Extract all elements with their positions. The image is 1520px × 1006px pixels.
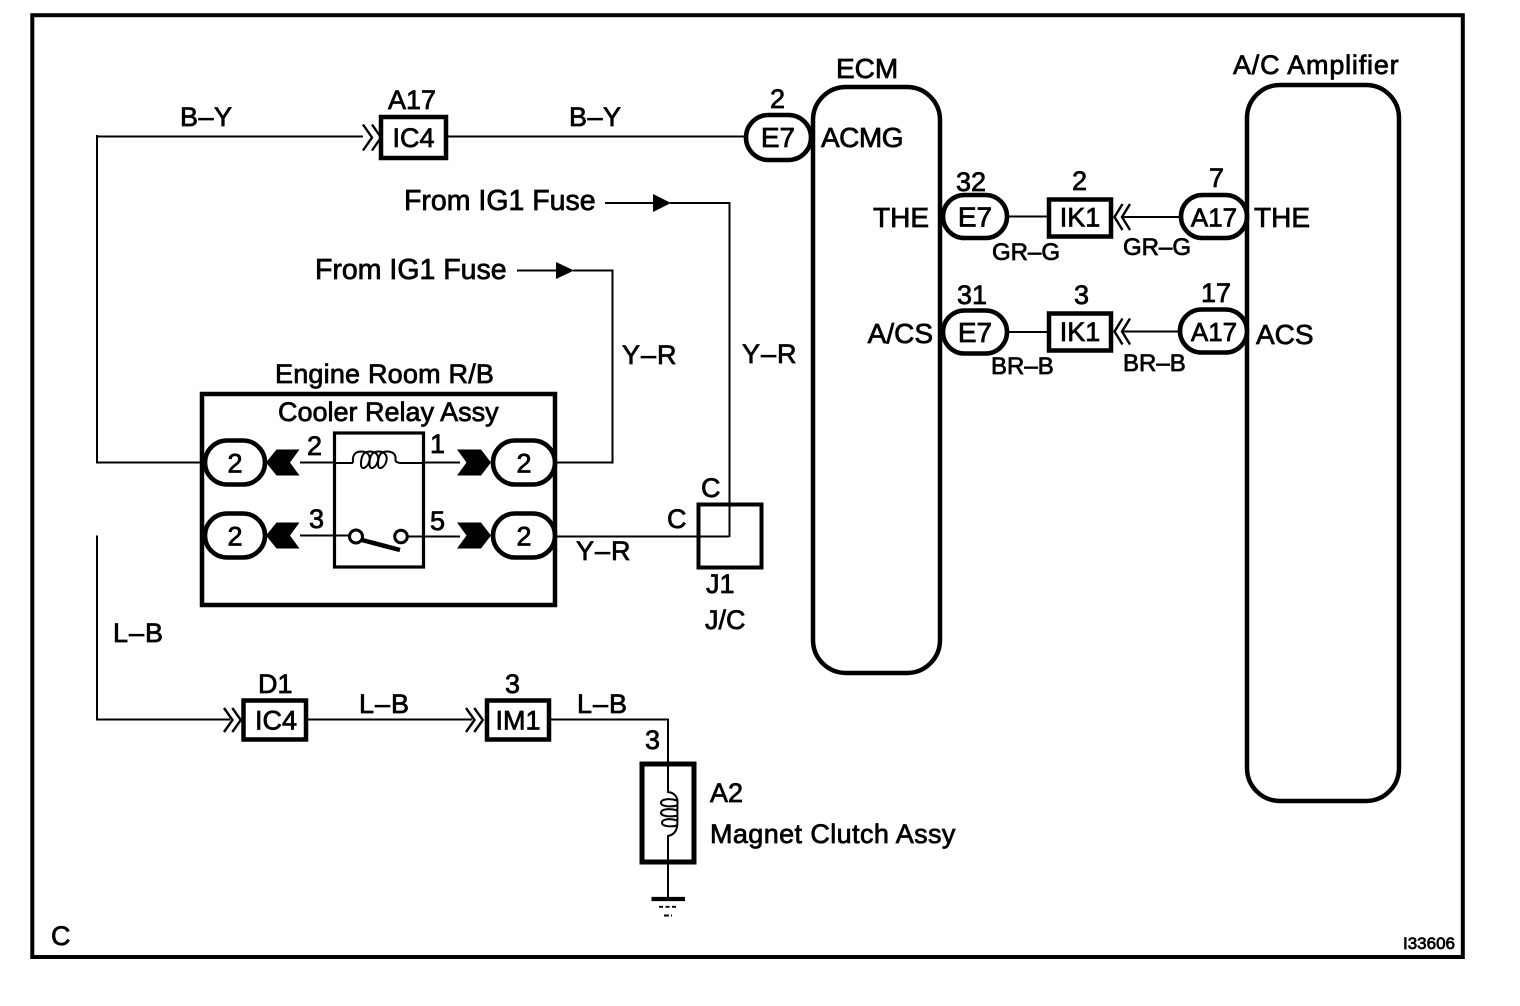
node E7 pin 2 (ACMG) [746, 84, 811, 160]
wire B-Y riser down the left into relay pin 2 [97, 135, 206, 463]
pin number 1 (relay coil) [430, 429, 445, 459]
A/C Amplifier box [1247, 85, 1399, 801]
svg-text:31: 31 [957, 280, 987, 310]
label I33606 (figure number) [1403, 934, 1455, 953]
wire L-B riser from relay pin 3 down to connector D1 [97, 536, 230, 720]
arrow into relay coil (left, row 1) [266, 450, 300, 476]
wire from IG1 fuse (upper) to arrow [605, 202, 653, 204]
svg-text:3: 3 [645, 725, 660, 755]
wire Y-R from IG1 (lower) down to relay pin 1 side [556, 271, 613, 463]
svg-text:3: 3 [309, 504, 324, 534]
pin number 5 (relay switch) [430, 506, 445, 536]
svg-text:BR–B: BR–B [1123, 350, 1186, 377]
svg-text:BR–B: BR–B [991, 353, 1054, 380]
svg-text:32: 32 [956, 167, 986, 197]
svg-text:B–Y: B–Y [569, 102, 622, 132]
svg-text:A17: A17 [388, 85, 436, 115]
label From IG1 Fuse (upper) [404, 185, 596, 217]
connector IK1 (pin 2) [1049, 166, 1111, 237]
svg-text:C: C [701, 473, 721, 503]
svg-text:A17: A17 [1191, 203, 1237, 233]
label C (page index, bottom left) [51, 921, 71, 951]
pin number 2 (relay coil) [307, 431, 322, 461]
svg-text:C: C [51, 921, 71, 951]
svg-text:IK1: IK1 [1060, 203, 1101, 233]
arrow IG1 feed (upper) [653, 194, 671, 212]
svg-text:Y–R: Y–R [622, 340, 678, 370]
label From IG1 Fuse (lower) [315, 254, 507, 286]
wire B-Y from left riser to connector IC4 [97, 136, 363, 138]
wire E7-32 to IK1 [1007, 216, 1049, 218]
svg-text:Engine Room R/B: Engine Room R/B [275, 359, 494, 389]
svg-text:2: 2 [516, 449, 531, 479]
svg-text:IC4: IC4 [255, 706, 297, 736]
arrow out of relay coil (right, row 1) [457, 450, 491, 476]
svg-text:2: 2 [1072, 166, 1087, 196]
wire arrow to switch box (row2 left) [300, 535, 349, 537]
label L-B (right) [577, 689, 628, 719]
svg-text:2: 2 [227, 522, 242, 552]
svg-text:3: 3 [1074, 280, 1089, 310]
label BR-B (right) [1123, 350, 1186, 377]
label ECM [836, 53, 898, 84]
pin name ACS (amplifier) [1256, 319, 1314, 350]
node E7 pin 32 (THE) [943, 167, 1007, 238]
label GR-G (left) [992, 239, 1060, 266]
connector IM1 (pin 3) [487, 669, 549, 740]
label A2 [710, 778, 743, 808]
ECM box [813, 87, 940, 673]
svg-text:THE: THE [1254, 202, 1310, 233]
node A17 pin 17 (ACS) [1180, 278, 1247, 353]
svg-text:17: 17 [1201, 278, 1231, 308]
svg-text:Y–R: Y–R [742, 339, 798, 369]
pin number 3 (relay switch) [309, 504, 324, 534]
connector arrows after IK1 (row 1) [1115, 204, 1131, 230]
svg-text:D1: D1 [258, 669, 293, 699]
label L-B (riser) [113, 618, 164, 648]
svg-text:Cooler Relay Assy: Cooler Relay Assy [278, 397, 499, 427]
node A17 pin 7 (THE) [1181, 163, 1247, 238]
relay terminal oval 2 (row 2 right) [493, 514, 555, 558]
svg-text:IM1: IM1 [495, 706, 540, 736]
wire Y-R relay pin 5 to junction J1 [555, 536, 729, 538]
wire Y-R from IG1 (upper) down to J/C [670, 203, 730, 537]
pin number 3 (magnet clutch) [645, 725, 660, 755]
svg-text:Y–R: Y–R [576, 536, 632, 566]
connector D1 / IC4 [244, 669, 307, 740]
label Engine Room R/B [275, 359, 494, 389]
label Y-R (left riser) [622, 340, 678, 370]
svg-text:ACS: ACS [1256, 319, 1314, 350]
node E7 pin 31 (A/CS) [943, 280, 1007, 354]
pin name THE (ECM) [873, 202, 929, 233]
svg-text:2: 2 [770, 84, 785, 114]
wire coil box to arrow (row1 right) [423, 462, 460, 464]
svg-text:J/C: J/C [705, 605, 746, 635]
magnet clutch A2 box [642, 764, 694, 862]
label Magnet Clutch Assy [710, 819, 956, 849]
pin name A/CS (ECM) [868, 318, 933, 349]
svg-text:GR–G: GR–G [992, 239, 1060, 266]
connector IK1 (pin 3) [1049, 280, 1111, 351]
wire IK1 to A17-17 (BR-B) [1122, 331, 1180, 333]
svg-text:2: 2 [227, 449, 242, 479]
wire arrow to coil box (row1 left) [300, 462, 335, 464]
svg-text:E7: E7 [958, 317, 992, 348]
svg-text:THE: THE [873, 202, 929, 233]
wire B-Y from IC4 to ECM pin E7-2 [446, 136, 747, 138]
relay block (Engine Room R/B) [202, 394, 555, 605]
svg-text:3: 3 [505, 669, 520, 699]
label C (junction pin, left) [667, 504, 687, 534]
svg-text:7: 7 [1209, 163, 1224, 193]
connector arrows into IC4 (A17) [363, 125, 381, 151]
magnet clutch coil [661, 764, 678, 862]
connector A17 / IC4 [381, 85, 446, 158]
relay terminal oval 2 (row 1 left) [205, 441, 265, 485]
wire L-B from IM1 to magnet clutch [548, 720, 668, 765]
svg-text:2: 2 [307, 431, 322, 461]
relay terminal oval 2 (row 2 left) [205, 514, 265, 558]
svg-text:2: 2 [516, 522, 531, 552]
label GR-G (right) [1123, 234, 1191, 261]
svg-text:ECM: ECM [836, 53, 898, 84]
svg-text:IC4: IC4 [392, 123, 434, 153]
junction block J1 J/C [699, 505, 762, 568]
wire switch to arrow (row2 right) [407, 536, 460, 538]
connector arrows after IK1 (row 2) [1115, 319, 1131, 345]
svg-text:C: C [667, 504, 687, 534]
label B-Y (left) [180, 102, 233, 132]
arrow IG1 feed (lower) [556, 262, 574, 279]
svg-text:GR–G: GR–G [1123, 234, 1191, 261]
svg-text:E7: E7 [958, 202, 992, 233]
svg-text:B–Y: B–Y [180, 102, 233, 132]
svg-text:From IG1 Fuse: From IG1 Fuse [404, 185, 596, 217]
ground [652, 899, 686, 916]
arrow out of relay switch (right, row 2) [457, 523, 491, 549]
svg-text:A2: A2 [710, 778, 743, 808]
svg-text:5: 5 [430, 506, 445, 536]
svg-text:L–B: L–B [359, 689, 410, 719]
wire from IG1 fuse (lower) to arrow [517, 270, 556, 272]
arrow into relay switch (left, row 2) [266, 523, 300, 549]
svg-text:ACMG: ACMG [821, 122, 903, 153]
pin name ACMG [821, 122, 903, 153]
label Cooler Relay Assy [278, 397, 499, 427]
svg-text:From IG1 Fuse: From IG1 Fuse [315, 254, 507, 286]
connector arrows into IC4 (D1) [224, 708, 241, 732]
relay inner box [335, 433, 424, 567]
svg-text:J1: J1 [706, 569, 735, 599]
label A/C Amplifier [1233, 50, 1399, 80]
label L-B (middle) [359, 689, 410, 719]
pin name THE (amplifier) [1254, 202, 1310, 233]
svg-text:A/CS: A/CS [868, 318, 933, 349]
wire E7-31 to IK1 [1007, 331, 1049, 333]
wire IK1 to A17-7 (GR-G) [1122, 216, 1181, 218]
wire magnet clutch to ground [667, 862, 669, 898]
svg-text:E7: E7 [761, 122, 795, 153]
connector arrows into IM1 [466, 708, 483, 732]
relay switch contacts and blade [350, 530, 408, 550]
svg-text:L–B: L–B [113, 618, 164, 648]
label J/C [705, 605, 746, 635]
relay terminal oval 2 (row 1 right) [493, 441, 555, 485]
label Y-R (right riser) [742, 339, 798, 369]
label BR-B (left) [991, 353, 1054, 380]
svg-text:L–B: L–B [577, 689, 628, 719]
svg-text:IK1: IK1 [1060, 317, 1101, 347]
svg-text:1: 1 [430, 429, 445, 459]
svg-text:I33606: I33606 [1403, 934, 1455, 953]
svg-text:Magnet Clutch Assy: Magnet Clutch Assy [710, 819, 956, 849]
label C (junction pin, above) [701, 473, 721, 503]
relay coil [335, 452, 423, 469]
svg-text:A/C Amplifier: A/C Amplifier [1233, 50, 1399, 80]
label Y-R (horizontal run) [576, 536, 632, 566]
label J1 [706, 569, 735, 599]
label B-Y (right) [569, 102, 622, 132]
wire L-B from IC4 to IM1 [306, 719, 472, 721]
svg-text:A17: A17 [1191, 317, 1237, 347]
